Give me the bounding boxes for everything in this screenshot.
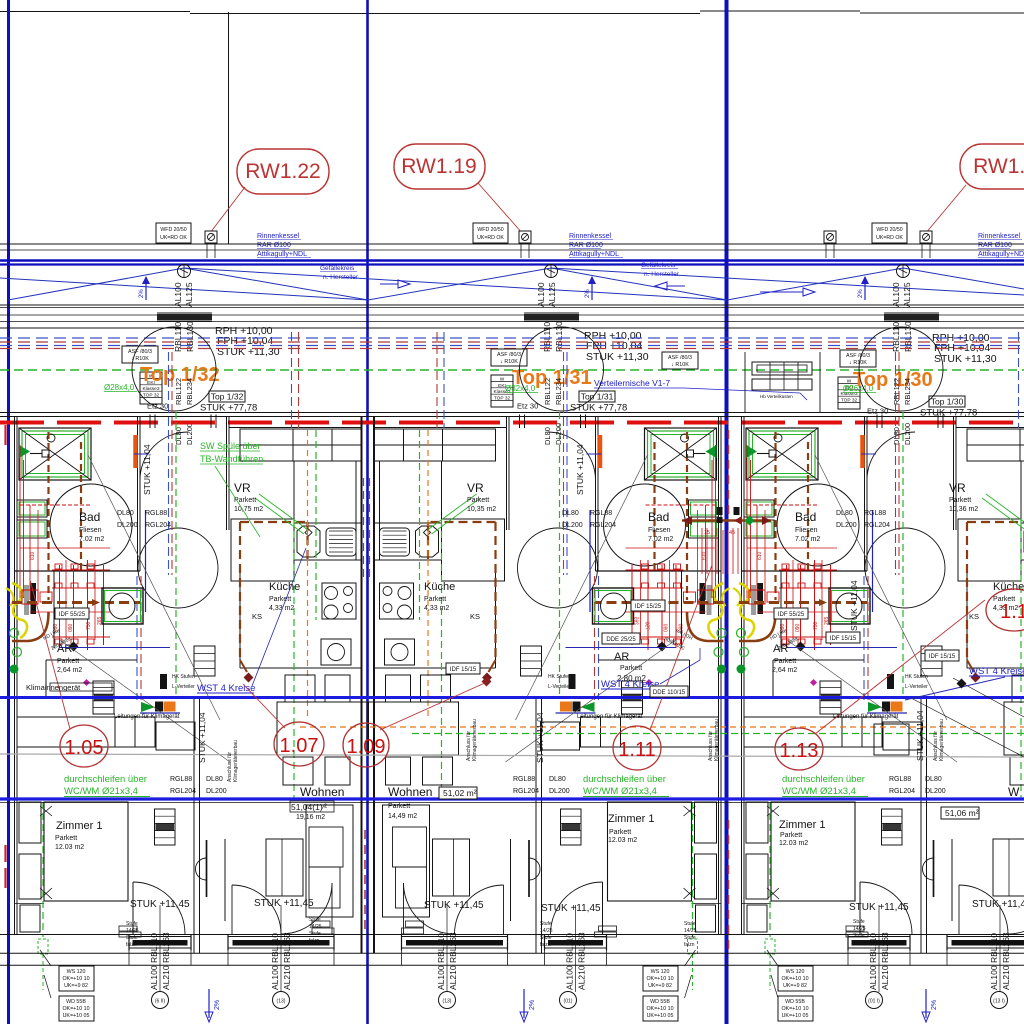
svg-text:RGL204: RGL204 bbox=[889, 788, 915, 795]
svg-text:Stufe: Stufe bbox=[309, 917, 321, 923]
roof dashed service lines bbox=[0, 337, 1024, 339]
svg-text:2%: 2% bbox=[139, 289, 145, 298]
grid line D (blue vertical x=726) bbox=[725, 0, 729, 1024]
svg-text:Fliesen: Fliesen bbox=[795, 527, 818, 534]
svg-text:AL125: AL125 bbox=[547, 282, 557, 307]
svg-text:1.13: 1.13 bbox=[780, 740, 819, 762]
window ref circles bbox=[152, 992, 169, 1009]
eaves line bbox=[0, 243, 1024, 245]
svg-text:RGL88: RGL88 bbox=[864, 510, 886, 517]
svg-text:RBL130: RBL130 bbox=[185, 321, 195, 352]
svg-text:W: W bbox=[1008, 785, 1020, 799]
svg-text:(13 I): (13 I) bbox=[993, 999, 1005, 1005]
svg-text:AL100 RBL110: AL100 RBL110 bbox=[565, 933, 575, 990]
svg-text:RAR Ø100: RAR Ø100 bbox=[569, 242, 603, 249]
svg-text:IDF 55/25: IDF 55/25 bbox=[778, 612, 805, 618]
attika blue double line bbox=[0, 259, 1024, 262]
svg-text:Parkett: Parkett bbox=[55, 835, 77, 842]
red marks on grid A bbox=[4, 845, 6, 862]
svg-text:STUK +11,04: STUK +11,04 bbox=[197, 712, 207, 763]
circuit label 1.13 bbox=[775, 728, 823, 770]
circuit label 1.09 bbox=[343, 723, 389, 767]
svg-text:Leitungen für Klimagerät: Leitungen für Klimagerät bbox=[833, 714, 899, 720]
attic floor lines bbox=[0, 304, 1024, 306]
leader RW1.19 bbox=[478, 183, 523, 234]
label RW1.19 bbox=[394, 144, 485, 189]
orange service dashed to right bbox=[300, 726, 1024, 728]
svg-text:HK Stufen: HK Stufen bbox=[548, 674, 571, 680]
svg-text:WC/WM Ø21x3,4: WC/WM Ø21x3,4 bbox=[583, 786, 657, 797]
svg-text:Parkett: Parkett bbox=[424, 596, 446, 603]
svg-text:HK Stufen: HK Stufen bbox=[905, 674, 928, 680]
svg-text:1.1: 1.1 bbox=[1000, 601, 1024, 623]
svg-text:Rinnenkessel: Rinnenkessel bbox=[257, 233, 299, 240]
svg-text:IDF 15/15: IDF 15/15 bbox=[929, 654, 956, 660]
svg-text:AL210 RBL263: AL210 RBL263 bbox=[577, 932, 587, 990]
svg-text:2%: 2% bbox=[585, 289, 591, 298]
svg-text:RBL130: RBL130 bbox=[903, 321, 913, 352]
svg-text:1.05: 1.05 bbox=[65, 737, 104, 759]
svg-text:45: 45 bbox=[729, 530, 735, 536]
svg-text:DL200: DL200 bbox=[117, 522, 138, 529]
grid line A (blue vertical x=8) bbox=[7, 0, 10, 1024]
svg-text:51,04(1)⁄²: 51,04(1)⁄² bbox=[291, 802, 327, 812]
svg-text:IDF 55/25: IDF 55/25 bbox=[59, 612, 86, 618]
svg-text:WD 55B: WD 55B bbox=[650, 999, 670, 1005]
svg-text:STUK +11,04: STUK +11,04 bbox=[915, 710, 925, 761]
svg-text:W: W bbox=[500, 376, 505, 382]
svg-text:WFD 20/50: WFD 20/50 bbox=[477, 227, 503, 233]
distribution niche V1-7 at grid D bbox=[752, 362, 812, 375]
svg-text:HK Stufen: HK Stufen bbox=[172, 674, 195, 680]
svg-text:Bad: Bad bbox=[648, 510, 669, 524]
svg-text:RGL204: RGL204 bbox=[590, 522, 616, 529]
cross-wall pipe cluster at grid D bbox=[682, 519, 771, 522]
svg-text:12.03 m2: 12.03 m2 bbox=[779, 840, 808, 847]
svg-text:RBL130: RBL130 bbox=[554, 321, 564, 352]
svg-text:AR: AR bbox=[57, 643, 72, 655]
window lintel bars bbox=[157, 314, 212, 321]
svg-text:Attikagully+NDL: Attikagully+NDL bbox=[257, 251, 307, 258]
svg-text:TOP 32: TOP 32 bbox=[494, 396, 511, 402]
svg-text:AL100: AL100 bbox=[891, 282, 901, 307]
svg-text:↓ R10K: ↓ R10K bbox=[671, 362, 689, 368]
green service dashed to right bbox=[412, 733, 1024, 735]
truss diagonals bbox=[8, 268, 184, 300]
svg-text:Stufe: Stufe bbox=[540, 935, 552, 941]
svg-text:STUK +11,45: STUK +11,45 bbox=[541, 903, 601, 914]
svg-text:RW1.1: RW1.1 bbox=[973, 155, 1024, 178]
WS WD level boxes bbox=[59, 966, 94, 991]
svg-text:DL200: DL200 bbox=[185, 423, 194, 445]
svg-text:(13): (13) bbox=[443, 999, 452, 1005]
svg-text:Küche: Küche bbox=[269, 581, 300, 593]
svg-text:STUK +11,45: STUK +11,45 bbox=[254, 898, 314, 909]
circuit label 1.11 bbox=[613, 726, 661, 770]
svg-text:RGL204: RGL204 bbox=[513, 788, 539, 795]
svg-text:Fliesen: Fliesen bbox=[79, 527, 102, 534]
svg-text:(6 II): (6 II) bbox=[155, 999, 166, 1005]
svg-text:2%: 2% bbox=[529, 1000, 536, 1010]
svg-text:n. Hersteller: n. Hersteller bbox=[644, 271, 680, 278]
svg-text:STUK +11,04: STUK +11,04 bbox=[575, 444, 585, 495]
DDE boxes bbox=[602, 633, 640, 644]
svg-text:AL210 RBL263: AL210 RBL263 bbox=[1001, 932, 1011, 990]
svg-text:Stufe: Stufe bbox=[126, 935, 138, 941]
svg-text:Parkett: Parkett bbox=[620, 665, 642, 672]
red dash overlay grid C bbox=[364, 830, 366, 930]
svg-text:STUK +77,78: STUK +77,78 bbox=[200, 403, 257, 414]
svg-text:1.07: 1.07 bbox=[280, 735, 319, 757]
svg-text:Ø28x4,0: Ø28x4,0 bbox=[104, 383, 135, 392]
svg-text:OK=+10 10: OK=+10 10 bbox=[62, 976, 89, 982]
svg-text:STUK +11,30: STUK +11,30 bbox=[586, 351, 649, 363]
svg-text:UK=+9 82: UK=+9 82 bbox=[648, 983, 672, 989]
svg-text:Leitungen für Klimagerät: Leitungen für Klimagerät bbox=[577, 714, 643, 720]
svg-text:RGL204: RGL204 bbox=[864, 522, 890, 529]
svg-text:Klimageräteverbau: Klimageräteverbau bbox=[233, 740, 239, 782]
svg-text:DL80: DL80 bbox=[206, 776, 223, 783]
svg-text:ASF /80/3: ASF /80/3 bbox=[128, 349, 152, 355]
svg-text:19,16 m2: 19,16 m2 bbox=[296, 814, 325, 821]
svg-text:DL80: DL80 bbox=[925, 776, 942, 783]
svg-text:14/25: 14/25 bbox=[540, 928, 553, 934]
svg-text:WST 4 Kreise: WST 4 Kreise bbox=[969, 666, 1024, 677]
svg-text:(13): (13) bbox=[277, 999, 286, 1005]
svg-text:DL80: DL80 bbox=[836, 510, 853, 517]
area label 51,06 bbox=[941, 807, 979, 819]
svg-text:12.03 m2: 12.03 m2 bbox=[55, 844, 84, 851]
svg-text:ASF /80/3: ASF /80/3 bbox=[497, 352, 521, 358]
svg-text:Parkett: Parkett bbox=[774, 658, 796, 665]
grid line C (blue vertical x=367) bbox=[366, 0, 369, 1024]
svg-text:2%: 2% bbox=[931, 1000, 938, 1010]
window small bbox=[129, 934, 191, 965]
svg-text:1.09: 1.09 bbox=[347, 736, 386, 758]
EKI class boxes bbox=[140, 372, 162, 404]
svg-text:Parkett: Parkett bbox=[780, 832, 802, 839]
WFD 20/50 label box bbox=[156, 223, 191, 243]
svg-text:OK=+10 10: OK=+10 10 bbox=[62, 1006, 89, 1012]
svg-text:Attikagully+NDL: Attikagully+NDL bbox=[569, 251, 619, 258]
svg-text:RBL110: RBL110 bbox=[891, 322, 901, 352]
svg-text:Parkett: Parkett bbox=[388, 803, 410, 810]
circuit label 1.07 bbox=[274, 722, 324, 766]
svg-text:ASF /80/3: ASF /80/3 bbox=[668, 355, 692, 361]
svg-text:UK=+10 05: UK=+10 05 bbox=[782, 1013, 809, 1019]
grey reference line bbox=[0, 754, 1024, 757]
svg-text:DL200: DL200 bbox=[925, 788, 946, 795]
svg-text:1.11: 1.11 bbox=[618, 739, 655, 761]
corridor line blue upper bbox=[0, 696, 1024, 699]
svg-text:L-Verteiler: L-Verteiler bbox=[548, 684, 571, 690]
svg-text:12.03 m2: 12.03 m2 bbox=[608, 837, 637, 844]
svg-text:2%: 2% bbox=[214, 1000, 221, 1010]
svg-text:STUK +11,45: STUK +11,45 bbox=[424, 900, 484, 911]
svg-text:STUK +11,30: STUK +11,30 bbox=[934, 353, 997, 365]
corridor line blue lower bbox=[0, 797, 1024, 800]
svg-text:OK=+10 10: OK=+10 10 bbox=[646, 1006, 673, 1012]
svg-text:Klimageräteverbau: Klimageräteverbau bbox=[472, 719, 478, 761]
IDF boxes bbox=[55, 608, 89, 619]
2 percent bottom arrows bbox=[208, 989, 210, 1018]
svg-text:WC/WM Ø21x3,4: WC/WM Ø21x3,4 bbox=[64, 786, 138, 797]
svg-text:↓ R10K: ↓ R10K bbox=[849, 360, 867, 366]
window wide bbox=[947, 934, 1024, 965]
sideboard extension bay3 bbox=[874, 724, 909, 755]
svg-text:durchschleifen über: durchschleifen über bbox=[64, 774, 147, 785]
svg-text:UK=+9 82: UK=+9 82 bbox=[64, 983, 88, 989]
svg-text:VR: VR bbox=[467, 481, 484, 495]
svg-text:SW Spüle über: SW Spüle über bbox=[200, 441, 261, 451]
svg-text:DL200: DL200 bbox=[836, 522, 857, 529]
svg-text:Parkett: Parkett bbox=[467, 497, 489, 504]
svg-text:RGL204: RGL204 bbox=[170, 788, 196, 795]
label RW1.22 bbox=[237, 149, 329, 194]
svg-text:Etz 30: Etz 30 bbox=[517, 402, 538, 411]
svg-text:UK=+10 05: UK=+10 05 bbox=[647, 1013, 674, 1019]
svg-text:Bad: Bad bbox=[79, 510, 100, 524]
svg-text:IDF 15/15: IDF 15/15 bbox=[830, 636, 857, 642]
svg-text:KS: KS bbox=[470, 612, 480, 621]
svg-text:falzn: falzn bbox=[309, 938, 320, 944]
svg-text:IDF 15/15: IDF 15/15 bbox=[450, 667, 477, 673]
svg-text:Top 1/30: Top 1/30 bbox=[931, 397, 964, 407]
svg-text:AL100 RBL110: AL100 RBL110 bbox=[868, 933, 878, 990]
svg-text:7.02 m2: 7.02 m2 bbox=[79, 536, 104, 543]
svg-text:AL100: AL100 bbox=[536, 282, 546, 307]
facade wall top bbox=[0, 412, 1024, 414]
svg-text:WD 55B: WD 55B bbox=[66, 999, 86, 1005]
WST leader lines bbox=[252, 548, 306, 686]
svg-text:Stufe: Stufe bbox=[853, 933, 865, 939]
svg-text:DL80: DL80 bbox=[549, 776, 566, 783]
svg-text:51,02 m²: 51,02 m² bbox=[443, 788, 477, 798]
svg-text:TB-Wandführen: TB-Wandführen bbox=[200, 454, 263, 464]
svg-text:Attikagully+NDL: Attikagully+NDL bbox=[978, 251, 1024, 258]
window small bbox=[848, 934, 910, 965]
svg-text:DL200: DL200 bbox=[903, 423, 912, 445]
truss apex symbols bbox=[178, 265, 191, 278]
svg-text:4,33 m2: 4,33 m2 bbox=[424, 605, 449, 612]
WFD 20/50 label box bbox=[473, 223, 508, 243]
svg-text:WC/WM Ø21x3,4: WC/WM Ø21x3,4 bbox=[782, 786, 856, 797]
svg-text:RBL122: RBL122 bbox=[174, 378, 183, 405]
svg-text:10,36 m2: 10,36 m2 bbox=[949, 506, 978, 513]
svg-text:RBL234: RBL234 bbox=[554, 378, 563, 405]
svg-text:Parkett: Parkett bbox=[269, 596, 291, 603]
leader RW1.22 bbox=[210, 187, 245, 233]
svg-text:DDE 110/15: DDE 110/15 bbox=[653, 690, 686, 696]
svg-text:AL100 RBL110: AL100 RBL110 bbox=[989, 933, 999, 990]
svg-text:RBL110: RBL110 bbox=[542, 322, 552, 352]
svg-text:(01): (01) bbox=[564, 999, 573, 1005]
svg-text:AR: AR bbox=[614, 651, 629, 663]
svg-text:14/25: 14/25 bbox=[309, 924, 322, 930]
circuit label 1.05 bbox=[60, 725, 108, 767]
svg-text:RGL88: RGL88 bbox=[145, 510, 167, 517]
ASF boxes bbox=[122, 346, 158, 363]
svg-text:RAR Ø100: RAR Ø100 bbox=[257, 242, 291, 249]
svg-text:UK=+9 82: UK=+9 82 bbox=[783, 983, 807, 989]
svg-text:(01 I): (01 I) bbox=[868, 999, 880, 1005]
svg-text:durchschleifen über: durchschleifen über bbox=[782, 774, 865, 785]
svg-text:2,64 m2: 2,64 m2 bbox=[772, 667, 797, 674]
gully symbol bbox=[920, 231, 932, 243]
svg-text:UK=+10 05: UK=+10 05 bbox=[63, 1013, 90, 1019]
svg-text:DL80: DL80 bbox=[543, 427, 552, 445]
svg-text:RBL234: RBL234 bbox=[903, 378, 912, 405]
svg-text:n. Hersteller: n. Hersteller bbox=[323, 274, 359, 281]
svg-text:AL125: AL125 bbox=[184, 282, 194, 307]
svg-text:STUK +77,78: STUK +77,78 bbox=[570, 403, 627, 414]
svg-text:Stufe: Stufe bbox=[684, 935, 696, 941]
svg-text:Leitungen für Klimagerät: Leitungen für Klimagerät bbox=[114, 714, 180, 720]
svg-text:Verteilernische V1-7: Verteilernische V1-7 bbox=[594, 378, 670, 388]
svg-text:2%: 2% bbox=[858, 289, 864, 298]
svg-text:IDF 15/25: IDF 15/25 bbox=[635, 604, 662, 610]
svg-text:AR: AR bbox=[773, 643, 788, 655]
svg-text:DL80: DL80 bbox=[174, 427, 183, 445]
svg-text:OK=+10 10: OK=+10 10 bbox=[646, 976, 673, 982]
svg-text:AL100 RBL110: AL100 RBL110 bbox=[436, 933, 446, 990]
label RW1.16 (cut at right) bbox=[960, 144, 1024, 189]
svg-text:TOP 32: TOP 32 bbox=[143, 393, 160, 399]
svg-text:Klimageräteverbau: Klimageräteverbau bbox=[939, 719, 945, 761]
gully symbol bbox=[205, 231, 217, 243]
svg-text:Rinnenkessel: Rinnenkessel bbox=[569, 233, 611, 240]
heating main red dashed line bbox=[0, 421, 1024, 425]
red dash overlay grid D bbox=[728, 820, 730, 955]
svg-text:↓ R10K: ↓ R10K bbox=[500, 359, 518, 365]
circuit label 1.15 cut bbox=[986, 589, 1024, 631]
svg-text:DL80: DL80 bbox=[117, 510, 134, 517]
svg-text:RBL122: RBL122 bbox=[543, 378, 552, 405]
svg-text:falzn: falzn bbox=[684, 942, 695, 948]
svg-text:Wohnen: Wohnen bbox=[300, 785, 344, 799]
svg-text:falzn: falzn bbox=[853, 940, 864, 946]
svg-text:Stufe: Stufe bbox=[540, 921, 552, 927]
svg-text:OK=+10 10: OK=+10 10 bbox=[781, 1006, 808, 1012]
svg-text:RBL234: RBL234 bbox=[185, 378, 194, 405]
svg-text:AL100 RBL110: AL100 RBL110 bbox=[270, 933, 280, 990]
svg-text:RGL88: RGL88 bbox=[590, 510, 612, 517]
svg-text:STUK +11,45: STUK +11,45 bbox=[972, 899, 1024, 910]
leader RW1.16 bbox=[925, 185, 966, 234]
svg-text:Etz 30: Etz 30 bbox=[147, 402, 168, 411]
2 percent slope arrows bbox=[145, 277, 147, 300]
svg-text:Küche: Küche bbox=[993, 581, 1024, 593]
svg-text:falzn: falzn bbox=[126, 942, 137, 948]
grid line B (black thin vertical x=228) bbox=[228, 12, 230, 244]
svg-text:Zimmer 1: Zimmer 1 bbox=[56, 820, 102, 832]
svg-text:RW1.19: RW1.19 bbox=[401, 155, 476, 178]
svg-text:RGL88: RGL88 bbox=[170, 776, 192, 783]
svg-text:Parkett: Parkett bbox=[609, 829, 631, 836]
svg-text:KS: KS bbox=[969, 612, 979, 621]
svg-text:AL125: AL125 bbox=[902, 282, 912, 307]
svg-text:14/25: 14/25 bbox=[126, 928, 139, 934]
svg-text:Bad: Bad bbox=[795, 510, 816, 524]
svg-text:RW1.22: RW1.22 bbox=[245, 160, 320, 183]
svg-text:DL200: DL200 bbox=[549, 788, 570, 795]
window wide bbox=[402, 934, 508, 965]
svg-text:DL80: DL80 bbox=[562, 510, 579, 517]
green service dashed line bbox=[0, 369, 1024, 371]
svg-text:10,35 m2: 10,35 m2 bbox=[467, 506, 496, 513]
svg-text:DL200: DL200 bbox=[206, 788, 227, 795]
svg-text:VR: VR bbox=[234, 481, 251, 495]
apartment Top 1/30 plan graphics bbox=[733, 327, 1024, 998]
svg-text:OK=+10 10: OK=+10 10 bbox=[781, 976, 808, 982]
svg-text:Wohnen: Wohnen bbox=[388, 785, 432, 799]
svg-text:RGL204: RGL204 bbox=[145, 522, 171, 529]
svg-text:Hb Verteilkasten: Hb Verteilkasten bbox=[760, 394, 793, 399]
apartment Top 1/31 plan graphics (mirrored) bbox=[362, 327, 730, 998]
svg-text:Stufe: Stufe bbox=[126, 921, 138, 927]
svg-text:14,49 m2: 14,49 m2 bbox=[388, 813, 417, 820]
svg-text:WFD 20/50: WFD 20/50 bbox=[160, 227, 186, 233]
area label 51,02 bbox=[439, 787, 477, 799]
svg-text:7.02 m2: 7.02 m2 bbox=[795, 536, 820, 543]
svg-text:Gefällekreis: Gefällekreis bbox=[320, 265, 355, 272]
svg-text:Fliesen: Fliesen bbox=[648, 527, 671, 534]
svg-text:Klimageräteverbau: Klimageräteverbau bbox=[714, 719, 720, 761]
svg-text:ASF /80/3: ASF /80/3 bbox=[846, 353, 870, 359]
window small bbox=[545, 934, 607, 965]
svg-text:Parkett: Parkett bbox=[57, 658, 79, 665]
svg-text:Top 1/31: Top 1/31 bbox=[581, 392, 614, 402]
svg-text:Zimmer 1: Zimmer 1 bbox=[608, 813, 654, 825]
svg-text:15: 15 bbox=[704, 530, 710, 536]
svg-text:WFD 20/50: WFD 20/50 bbox=[876, 227, 902, 233]
svg-text:AL210 RBL263: AL210 RBL263 bbox=[880, 932, 890, 990]
svg-text:RBL122: RBL122 bbox=[892, 378, 901, 405]
svg-text:Top 1/32: Top 1/32 bbox=[211, 392, 244, 402]
svg-text:AL210 RBL263: AL210 RBL263 bbox=[161, 932, 171, 990]
svg-text:Stufe: Stufe bbox=[309, 931, 321, 937]
WFD 20/50 label box bbox=[872, 223, 907, 243]
window wide bbox=[228, 934, 334, 965]
svg-text:Rinnenkessel: Rinnenkessel bbox=[978, 233, 1020, 240]
svg-text:2,64 m2: 2,64 m2 bbox=[57, 667, 82, 674]
svg-text:Gefällekreis: Gefällekreis bbox=[641, 262, 676, 269]
svg-text:10,75 m2: 10,75 m2 bbox=[234, 506, 263, 513]
svg-text:UK=RD OK: UK=RD OK bbox=[160, 235, 187, 241]
svg-text:7.02 m2: 7.02 m2 bbox=[648, 536, 673, 543]
svg-text:VR: VR bbox=[949, 481, 966, 495]
svg-text:STUK +11,04: STUK +11,04 bbox=[142, 444, 152, 495]
svg-text:UK=RD OK: UK=RD OK bbox=[876, 235, 903, 241]
svg-text:STUK +11,30: STUK +11,30 bbox=[217, 346, 280, 358]
svg-text:Klasse3: Klasse3 bbox=[142, 386, 159, 392]
svg-text:14/25: 14/25 bbox=[853, 926, 866, 932]
svg-text:UK=RD OK: UK=RD OK bbox=[477, 235, 504, 241]
svg-text:AL210 RBL263: AL210 RBL263 bbox=[448, 932, 458, 990]
svg-text:RAR Ø100: RAR Ø100 bbox=[978, 242, 1012, 249]
svg-text:AL210 RBL263: AL210 RBL263 bbox=[282, 932, 292, 990]
bottom facade wall bbox=[0, 934, 1024, 936]
svg-text:L-Verteiler: L-Verteiler bbox=[905, 684, 928, 690]
gully symbol bbox=[519, 231, 531, 243]
svg-text:DL200: DL200 bbox=[562, 522, 583, 529]
svg-text:WS 120: WS 120 bbox=[786, 969, 805, 975]
svg-text:14/25: 14/25 bbox=[684, 928, 697, 934]
svg-text:TOP 32: TOP 32 bbox=[841, 398, 858, 404]
svg-text:WD 55B: WD 55B bbox=[785, 999, 805, 1005]
svg-text:L-Verteiler: L-Verteiler bbox=[172, 684, 195, 690]
svg-text:AL100: AL100 bbox=[173, 282, 183, 307]
